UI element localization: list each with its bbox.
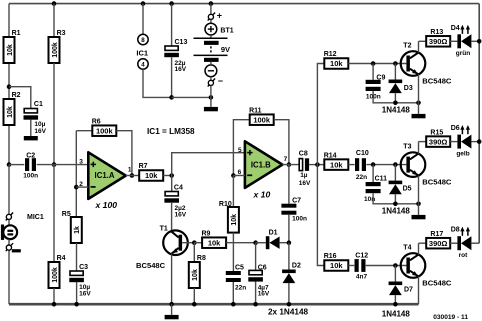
svg-text:R12: R12: [324, 51, 337, 58]
svg-text:R11: R11: [249, 107, 262, 114]
svg-text:−: −: [218, 76, 223, 86]
capacitor C9: [366, 74, 386, 100]
wire node to D1: [256, 242, 266, 244]
ground marker below rail: [171, 304, 173, 315]
wire +9V top supply rail: [9, 3, 479, 5]
svg-text:9V: 9V: [221, 45, 230, 54]
wire pin2 stub: [76, 186, 88, 188]
svg-text:D5: D5: [403, 186, 412, 193]
svg-text:1N4148: 1N4148: [382, 206, 411, 215]
resistor R6: [92, 118, 117, 136]
wire D7 to ground rail: [394, 295, 396, 304]
op-amp IC1.A: [88, 152, 126, 199]
svg-text:100k: 100k: [96, 126, 114, 135]
svg-text:C8: C8: [299, 150, 308, 157]
wire T4 collector: [418, 243, 420, 254]
capacitor C13: [164, 39, 187, 73]
wire C7 top lead: [288, 165, 290, 204]
svg-text:D1: D1: [269, 230, 278, 237]
svg-text:R6: R6: [92, 118, 101, 125]
ground stage T3: [418, 204, 420, 215]
svg-text:100n: 100n: [23, 172, 38, 179]
svg-text:BC548C: BC548C: [136, 261, 166, 270]
resistor R17: [426, 231, 450, 249]
LED D8 (rot): [451, 227, 472, 259]
svg-text:T3: T3: [403, 143, 411, 150]
battery BT1: [194, 20, 234, 81]
svg-text:3: 3: [79, 159, 83, 166]
wire D3 bottom lead: [394, 93, 396, 103]
svg-text:8: 8: [141, 37, 145, 44]
svg-text:C4: C4: [174, 185, 183, 192]
svg-text:1N4148: 1N4148: [382, 106, 411, 115]
wire R5 to C3: [76, 243, 78, 271]
capacitor C4: [164, 185, 186, 219]
wire C1 to ground: [30, 120, 32, 136]
svg-text:22n: 22n: [356, 174, 367, 181]
wire C13 to ground bus: [171, 57, 173, 97]
svg-text:C12: C12: [355, 253, 368, 260]
node distribution rail junction: [315, 162, 320, 167]
svg-text:IC1 = LM358: IC1 = LM358: [147, 127, 195, 136]
wire C8 to rail node: [309, 164, 324, 166]
connector battery plus: [208, 11, 222, 21]
wire distribution rail: [317, 64, 324, 266]
node T3 emitter junction: [416, 202, 421, 207]
node D6 rail junction: [477, 139, 482, 144]
wire output to R7: [126, 175, 139, 177]
capacitor C10: [355, 150, 369, 181]
svg-text:390Ω: 390Ω: [429, 37, 448, 46]
svg-text:10k: 10k: [145, 171, 158, 180]
wire right LED anode rail: [478, 4, 480, 244]
wire C2 to IC1.A pin 3: [37, 164, 89, 166]
svg-text:C1: C1: [34, 101, 43, 108]
svg-text:rot: rot: [459, 252, 469, 259]
svg-text:16V: 16V: [299, 180, 311, 187]
wire T3 emitter: [418, 176, 420, 204]
svg-text:10k: 10k: [330, 261, 343, 270]
microphone MIC1: [1, 213, 44, 252]
wire C9 top lead: [372, 64, 374, 80]
wire MIC1 bottom to ground rail: [8, 250, 10, 304]
capacitor C3: [69, 264, 91, 297]
node R3 top junction: [52, 1, 57, 6]
node C3 ground junction: [74, 302, 79, 307]
wire C5 to ground rail: [232, 282, 234, 304]
transistor T2: [401, 42, 426, 76]
wire R13 to D4: [450, 40, 457, 42]
wire R17 to D8: [450, 242, 457, 244]
svg-text:R14: R14: [324, 152, 337, 159]
LED D4 (grün): [451, 25, 472, 57]
svg-text:R16: R16: [324, 253, 337, 260]
transistor T1: [160, 226, 188, 255]
wire top rail to R3: [53, 4, 55, 37]
wire R7 to C4 node: [163, 175, 172, 177]
resistor R9: [202, 230, 227, 248]
wire R1 to R2 with node: [8, 63, 10, 99]
resistor R15: [426, 129, 450, 147]
wire D4 to right rail: [471, 40, 479, 42]
wire D7 top lead: [394, 266, 396, 282]
svg-text:R17: R17: [430, 231, 443, 238]
resistor R7: [139, 163, 164, 181]
wire T1 base to node: [182, 242, 194, 244]
svg-text:x 100: x 100: [95, 200, 118, 210]
wire node down to C4: [171, 176, 173, 192]
resistor R13: [426, 29, 450, 47]
svg-text:+: +: [217, 11, 222, 21]
svg-text:D4: D4: [451, 25, 460, 32]
ground MIC1: [12, 249, 21, 252]
svg-text:R5: R5: [62, 211, 71, 218]
svg-text:gelb: gelb: [456, 150, 469, 157]
wire C6 to ground rail: [255, 281, 257, 304]
connector battery minus: [208, 76, 223, 86]
svg-text:D2: D2: [292, 262, 301, 269]
svg-text:D6: D6: [451, 125, 460, 132]
wire R14 to C10: [348, 164, 354, 166]
capacitor C6: [248, 265, 270, 298]
wire R4 to ground rail: [53, 288, 55, 304]
resistor R5: [62, 211, 82, 243]
wire ground bus to battery: [172, 96, 211, 98]
wire D5 top lead: [394, 165, 396, 181]
wire output to C8: [282, 164, 299, 166]
wire R15 to D6: [450, 141, 457, 143]
diode D5: [389, 181, 412, 195]
svg-text:D3: D3: [404, 85, 413, 92]
wire pin2 feedback column: [75, 131, 77, 217]
node IC1 supply junction: [141, 1, 146, 6]
svg-text:C13: C13: [175, 39, 188, 46]
svg-text:7: 7: [284, 156, 288, 163]
wire C1 branch from R1/R2 node: [9, 87, 31, 109]
diode D2: [282, 262, 301, 283]
svg-text:1N4148: 1N4148: [382, 309, 411, 318]
svg-text:390Ω: 390Ω: [429, 137, 448, 146]
wire D6 to right rail: [471, 141, 479, 143]
svg-text:10k: 10k: [7, 106, 14, 118]
svg-text:1µ: 1µ: [300, 172, 308, 179]
wire T1 emitter to ground rail: [171, 254, 173, 305]
wire D5 bottom lead: [394, 194, 396, 204]
svg-text:IC1: IC1: [136, 48, 148, 57]
node T1 base/R8/R9 junction: [192, 240, 197, 245]
node C2/R3/R4/pin3 junction: [52, 162, 57, 167]
node D7 ground junction: [393, 302, 398, 307]
wire R9 to C6 node crossing R10 column: [226, 242, 256, 244]
node D2 ground junction: [287, 302, 292, 307]
svg-text:BC548C: BC548C: [422, 278, 452, 287]
wire C7 to D1/D2 node: [288, 215, 290, 243]
svg-text:C11: C11: [375, 176, 388, 183]
resistor R1: [4, 30, 21, 63]
diode D1: [266, 230, 280, 250]
capacitor C2: [23, 152, 38, 179]
op-amp power pins IC1 8/4: [136, 34, 148, 69]
wire stage2 ground bus: [373, 193, 418, 204]
wire ground bottom rail: [9, 303, 419, 306]
wire T2 collector: [418, 41, 420, 52]
svg-text:16V: 16V: [175, 212, 187, 219]
svg-text:10k: 10k: [330, 160, 343, 169]
svg-text:10k: 10k: [231, 214, 238, 226]
node C7/D1/D2 junction: [287, 240, 292, 245]
svg-text:D7: D7: [404, 286, 413, 293]
svg-text:10k: 10k: [208, 238, 221, 247]
svg-text:16V: 16V: [258, 291, 270, 298]
wire R8 top lead: [193, 243, 195, 262]
wire D3 top lead: [394, 64, 396, 80]
svg-text:BC548C: BC548C: [422, 76, 452, 85]
node D3 ground junction: [393, 101, 398, 106]
svg-text:MIC1: MIC1: [27, 214, 44, 221]
svg-text:16V: 16V: [34, 128, 46, 135]
wire node up to IC1.B pin 5: [172, 153, 245, 176]
diode D3: [389, 80, 413, 94]
svg-text:grün: grün: [456, 50, 470, 57]
wire C2 node down to MIC1: [8, 165, 10, 215]
capacitor C8: [299, 150, 311, 187]
svg-text:390Ω: 390Ω: [429, 239, 448, 248]
svg-text:C2: C2: [26, 152, 35, 159]
svg-text:1k: 1k: [74, 226, 81, 234]
svg-text:5: 5: [238, 147, 242, 154]
wire minus terminal to ground bus: [210, 86, 212, 98]
wire R10 through R9 row to C5 (no junction): [232, 233, 234, 271]
capacitor C11: [364, 176, 387, 203]
svg-text:T1: T1: [160, 226, 168, 233]
wire C11 top lead: [372, 165, 374, 182]
node T2 emitter junction: [416, 101, 421, 106]
svg-text:10k: 10k: [330, 59, 343, 68]
wire D1 to C7/D2 node: [280, 242, 289, 244]
resistor R11: [249, 107, 274, 125]
ground stage T2: [418, 103, 420, 114]
wire R16 to C12: [348, 265, 354, 267]
svg-text:R13: R13: [430, 29, 443, 36]
wire C4 to T1 collector: [171, 202, 173, 231]
wire R10 top lead: [232, 176, 234, 208]
svg-text:C3: C3: [79, 264, 88, 271]
svg-text:T2: T2: [403, 42, 411, 49]
node IC1.B output junction: [287, 162, 292, 167]
svg-text:IC1.A: IC1.A: [95, 171, 115, 180]
svg-text:C10: C10: [356, 150, 369, 157]
wire collector to R17: [419, 242, 427, 244]
svg-text:16V: 16V: [175, 66, 187, 73]
wire top rail to IC1 pin 8: [142, 4, 144, 35]
wire C10 to T3 base: [366, 164, 406, 166]
wire top rail to C13: [171, 4, 173, 46]
wire stage1 ground bus: [373, 91, 418, 103]
svg-text:10k: 10k: [7, 44, 14, 56]
svg-text:C7: C7: [292, 198, 301, 205]
node C13 ground junction: [169, 95, 174, 100]
node pin6 junction: [231, 173, 236, 178]
wire collector to R13: [419, 40, 427, 42]
transistor T3: [401, 143, 426, 177]
wire C3 to ground rail: [76, 282, 78, 304]
svg-text:T4: T4: [403, 244, 411, 251]
wire C2 left lead: [9, 164, 24, 166]
svg-text:R9: R9: [202, 230, 211, 237]
svg-text:BT1: BT1: [220, 27, 233, 34]
node C5 ground junction: [231, 302, 236, 307]
node D5 junction: [393, 162, 398, 167]
wire T4 emitter to ground rail: [418, 277, 420, 305]
wire collector to R15: [419, 141, 427, 143]
svg-text:100k: 100k: [253, 115, 271, 124]
wire C12 to T4 base: [366, 265, 407, 267]
wire top rail to plus terminal: [210, 4, 212, 14]
node T1 emitter ground junction: [169, 302, 174, 307]
wire R2 to C2 node: [8, 125, 10, 165]
ground C1: [24, 136, 38, 140]
svg-text:R15: R15: [430, 129, 443, 136]
wire pin6 stub: [233, 175, 245, 177]
svg-text:10k: 10k: [192, 269, 199, 281]
resistor R3: [49, 30, 66, 63]
capacitor C5: [226, 265, 246, 292]
ground power supply: [210, 97, 212, 107]
wire node down to R4: [53, 165, 55, 262]
resistor R16: [324, 253, 349, 271]
node D3 junction: [393, 61, 398, 66]
svg-text:030019 - 11: 030019 - 11: [433, 314, 468, 321]
capacitor C1: [24, 101, 47, 135]
node C2 left junction: [7, 162, 12, 167]
node D4 rail junction: [477, 39, 482, 44]
wire R6 left lead: [76, 130, 92, 132]
wire T3 collector: [418, 142, 420, 154]
svg-text:C5: C5: [235, 265, 244, 272]
svg-text:100k: 100k: [52, 267, 59, 283]
resistor R2: [4, 92, 21, 125]
svg-text:x 10: x 10: [253, 190, 271, 200]
node C13 top junction: [169, 1, 174, 6]
svg-text:IC1.B: IC1.B: [251, 160, 271, 169]
node C6 ground junction: [253, 302, 258, 307]
svg-text:4: 4: [141, 62, 145, 69]
node R1/R2/C1 junction: [7, 84, 12, 89]
wire left rail top to R1: [8, 4, 10, 37]
svg-text:22n: 22n: [235, 285, 246, 292]
svg-text:4n7: 4n7: [356, 274, 368, 281]
wire node to R9: [194, 242, 202, 244]
wire R11 left lead down to pin6: [233, 120, 249, 176]
svg-text:100n: 100n: [292, 216, 307, 223]
node BT1 top junction: [209, 1, 214, 6]
wire R12 to T2 base: [348, 63, 406, 65]
wire D8 to right rail corner: [471, 242, 479, 244]
svg-text:BC548C: BC548C: [422, 177, 452, 186]
node pin2 junction: [74, 185, 79, 190]
resistor R10: [219, 201, 239, 233]
wire R11 right lead to output: [274, 120, 289, 165]
node C6 top junction: [253, 240, 258, 245]
LED D6 (gelb): [451, 125, 472, 157]
node R7/C4/pin5 junction: [169, 173, 174, 178]
wire R6 right lead to output: [116, 131, 132, 176]
svg-text:R7: R7: [139, 163, 148, 170]
wire D2 to ground rail: [288, 283, 290, 304]
node R4 ground junction: [52, 302, 57, 307]
wire IC1 pin 4 to ground bus: [143, 69, 172, 97]
wire node down to D2: [288, 243, 290, 270]
capacitor C12: [355, 253, 369, 281]
wire R3 to C2 row node: [53, 63, 55, 165]
node battery ground junction: [209, 95, 214, 100]
svg-text:2x 1N4148: 2x 1N4148: [268, 308, 309, 317]
svg-text:C6: C6: [258, 265, 267, 272]
diode D7: [389, 282, 413, 296]
node D5 ground junction: [393, 202, 398, 207]
transistor T4: [401, 244, 426, 277]
resistor R14: [324, 152, 349, 170]
resistor R8: [189, 255, 206, 288]
resistor R4: [49, 255, 66, 288]
wire R8 to ground rail: [193, 288, 195, 304]
wire T2 emitter: [418, 75, 420, 103]
svg-text:C9: C9: [376, 74, 385, 81]
svg-text:D8: D8: [451, 227, 460, 234]
node D7 junction: [393, 263, 398, 268]
node C11 junction: [371, 162, 376, 167]
svg-text:100k: 100k: [52, 42, 59, 58]
node IC1.A output junction: [130, 173, 135, 178]
node R8 ground junction: [192, 302, 197, 307]
node C9 junction: [371, 61, 376, 66]
svg-text:16V: 16V: [79, 290, 91, 297]
wire C6 top lead: [255, 243, 257, 271]
op-amp IC1.B: [245, 141, 283, 188]
capacitor C7: [281, 198, 307, 223]
resistor R12: [324, 51, 349, 69]
